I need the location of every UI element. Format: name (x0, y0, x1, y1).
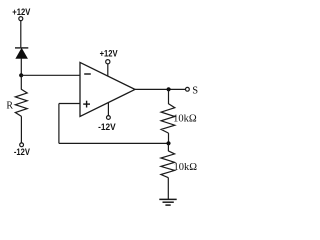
ground symbol (159, 199, 176, 205)
wire from resistor R1 to middle node (168, 133, 170, 143)
svg-text:+12V: +12V (100, 49, 118, 59)
svg-text:R: R (6, 100, 13, 111)
svg-text:-12V: -12V (98, 122, 116, 132)
wire from +12V terminal to diode cathode (20, 21, 22, 48)
output terminal circle S (186, 87, 190, 91)
op-amp U1 negative supply label (98, 122, 116, 132)
resistor R value label (6, 100, 13, 111)
wire from resistor R to -12V terminal (20, 116, 22, 143)
+12V supply label (top left) (12, 7, 30, 17)
op-amp inverting input minus sign (84, 73, 91, 75)
op-amp positive supply terminal circle (106, 60, 110, 64)
output junction node (167, 87, 171, 91)
wire from diode anode to node (20, 58, 22, 75)
wire from node to op-amp inverting input (21, 74, 80, 76)
-12V supply label (bottom left) (14, 147, 30, 157)
resistor R2 zigzag body (lower 10k) (161, 151, 175, 178)
resistor R1 value label 10k ohm (173, 114, 197, 125)
resistor R1 zigzag body (upper 10k) (161, 104, 175, 133)
wire from resistor R2 to ground (167, 178, 169, 200)
output node label S (192, 86, 198, 97)
middle junction node (voltage divider tap) (166, 141, 170, 145)
svg-text:10kΩ: 10kΩ (173, 114, 197, 125)
op-amp non-inverting input plus sign (83, 101, 90, 108)
op-amp U1 positive supply label (100, 49, 118, 59)
+12V terminal circle (top left) (19, 17, 23, 21)
op-amp U1 triangle body (80, 62, 135, 116)
feedback wire bottom horizontal segment (59, 142, 168, 144)
wire from +12V terminal to op-amp top edge (107, 64, 109, 77)
resistor R2 value label 10k ohm (174, 162, 198, 173)
wire from middle node to resistor R2 (167, 143, 169, 151)
wire from node down to resistor R (20, 75, 22, 89)
svg-text:+12V: +12V (12, 7, 30, 17)
wire from op-amp bottom edge to -12V terminal (107, 103, 109, 116)
wire from output node to resistor R1 (168, 89, 170, 104)
svg-text:-12V: -12V (14, 147, 30, 157)
-12V terminal circle (bottom left) (20, 143, 24, 147)
diode D1 anode triangle (pointing up) (16, 48, 28, 58)
diode D1 cathode bar (15, 47, 28, 49)
op-amp output wire (135, 88, 186, 90)
resistor R zigzag body (15, 89, 27, 116)
feedback wire vertical segment (58, 104, 60, 144)
svg-text:10kΩ: 10kΩ (174, 162, 198, 173)
junction node (diode / R / inverting input) (19, 73, 23, 77)
op-amp negative supply terminal circle (107, 116, 111, 120)
svg-text:S: S (192, 86, 198, 97)
wire from op-amp non-inverting input to feedback corner (59, 103, 80, 105)
